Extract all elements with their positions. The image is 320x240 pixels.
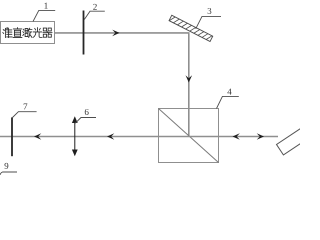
- label 1: [44, 3, 47, 9]
- arrowhead left (between 6 and cube): [107, 133, 114, 140]
- label 7: [24, 104, 28, 110]
- arrowhead down on vertical beam: [186, 75, 193, 82]
- laser box U1 (准直激光器 collimated laser): [1, 22, 55, 44]
- element 6: double-headed vertical arrow: [72, 116, 78, 156]
- arrowhead left (between 7 and 6): [34, 133, 41, 140]
- label 1 leader: [33, 10, 55, 21]
- label 9 leader: [0, 172, 17, 175]
- 光: [33, 28, 42, 38]
- mirror 8 (tilted, cropped at right edge): [277, 125, 314, 155]
- label 4: [227, 89, 231, 95]
- label 3: [208, 8, 212, 14]
- 器: [43, 28, 52, 37]
- wire: beam laser to mirror 3: [55, 32, 190, 34]
- label 6: [85, 109, 89, 115]
- label 7 leader: [13, 112, 37, 118]
- mirror 3 (hatched, tilted): [169, 15, 213, 41]
- lens 2 (thick vertical line): [83, 11, 85, 55]
- mirror 7 (thick vertical line): [11, 117, 13, 156]
- arrowhead right on beam: [112, 30, 119, 37]
- 直: [13, 28, 22, 38]
- label 2 leader: [84, 11, 105, 19]
- label 6 leader: [75, 118, 96, 124]
- arrowhead left (right of cube): [233, 133, 240, 140]
- arrowhead right (toward mirror 8): [257, 133, 264, 140]
- 准: [3, 28, 12, 38]
- label 9: [4, 163, 8, 169]
- 激: [23, 28, 32, 37]
- label 3 leader: [196, 16, 221, 28]
- wire: beam mirror 3 down to splitter 4: [188, 34, 190, 137]
- laser box text 准直激光器 (drawn strokes): [3, 28, 52, 38]
- label 4 leader: [217, 96, 239, 108]
- label 2: [93, 4, 97, 10]
- beam splitter cube 4: [159, 109, 219, 163]
- wire: horizontal beam through cube, left arm to x=0 and right arm to mirror 8: [0, 136, 278, 138]
